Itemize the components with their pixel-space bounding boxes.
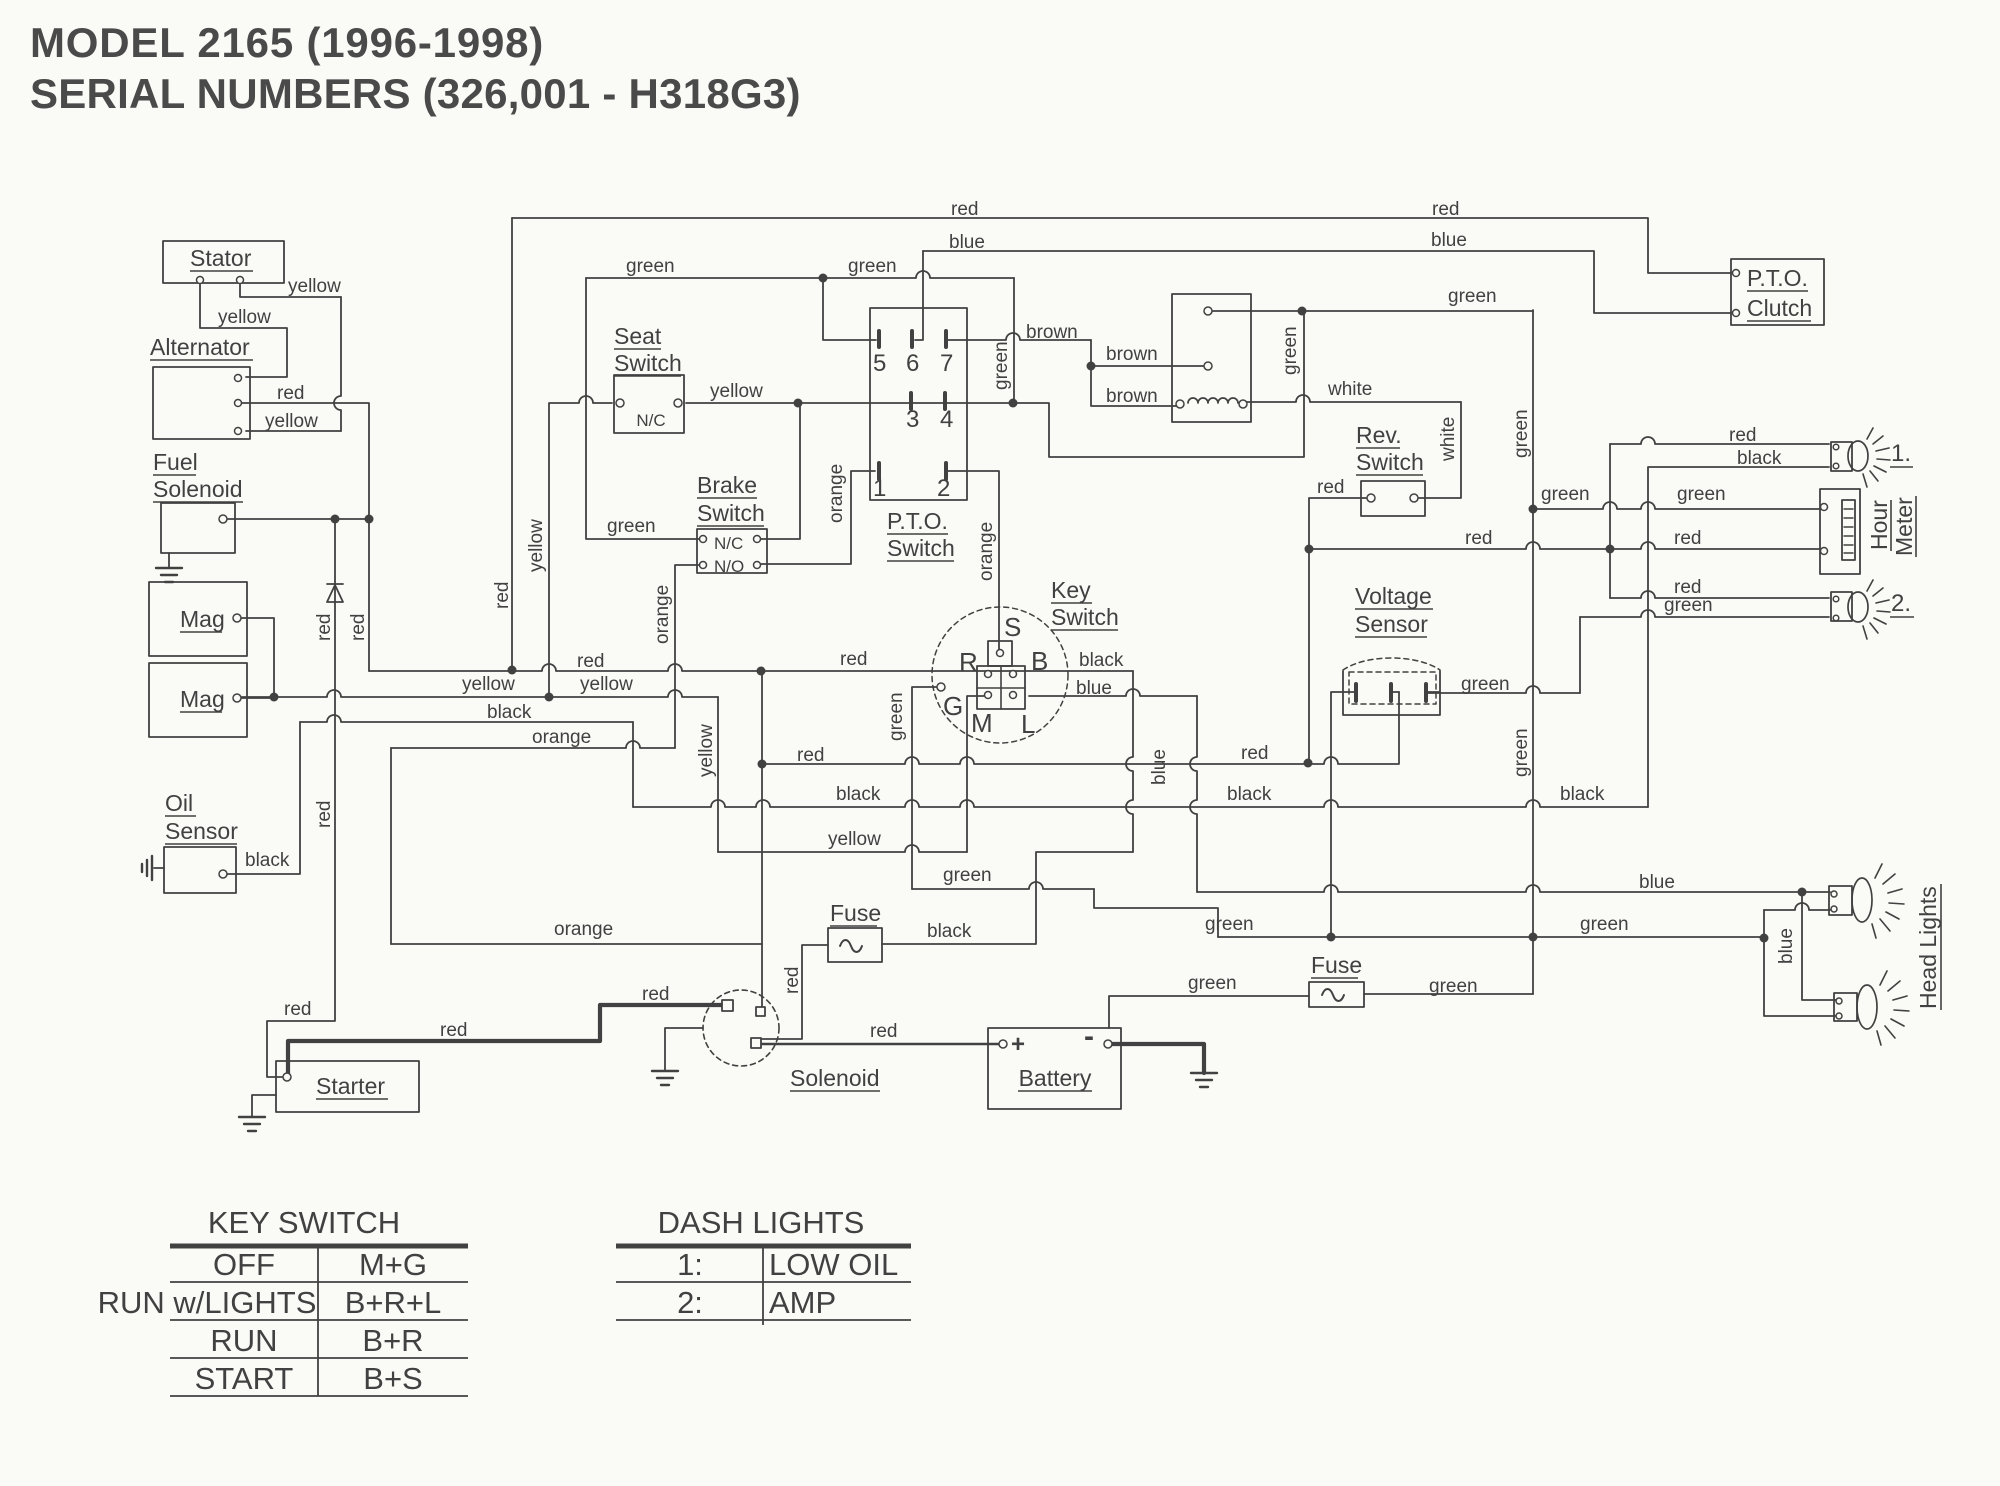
svg-text:AMP: AMP bbox=[769, 1285, 836, 1320]
svg-text:red: red bbox=[1432, 199, 1459, 220]
svg-text:Sensor: Sensor bbox=[1355, 611, 1428, 637]
svg-text:B+R+L: B+R+L bbox=[345, 1285, 442, 1320]
svg-text:S: S bbox=[1004, 612, 1021, 642]
svg-text:1: 1 bbox=[873, 475, 886, 502]
svg-text:Rev.: Rev. bbox=[1356, 422, 1402, 448]
svg-text:Switch: Switch bbox=[887, 535, 955, 561]
svg-text:red: red bbox=[840, 649, 867, 670]
svg-text:green: green bbox=[1448, 286, 1497, 307]
svg-text:red: red bbox=[642, 984, 669, 1005]
svg-text:green: green bbox=[1188, 973, 1237, 994]
svg-text:green: green bbox=[1677, 484, 1726, 505]
svg-text:red: red bbox=[492, 582, 513, 609]
svg-text:red: red bbox=[870, 1021, 897, 1042]
svg-text:Fuel: Fuel bbox=[153, 449, 198, 475]
svg-text:green: green bbox=[1580, 914, 1629, 935]
svg-text:green: green bbox=[626, 256, 675, 277]
svg-text:2: 2 bbox=[937, 475, 950, 502]
svg-text:brown: brown bbox=[1026, 322, 1078, 343]
svg-text:red: red bbox=[440, 1020, 467, 1041]
svg-text:black: black bbox=[1227, 784, 1272, 805]
svg-text:DASH LIGHTS: DASH LIGHTS bbox=[658, 1205, 865, 1240]
svg-text:1.: 1. bbox=[1891, 440, 1911, 467]
svg-text:orange: orange bbox=[652, 585, 673, 644]
svg-text:-: - bbox=[1084, 1020, 1094, 1053]
svg-text:5: 5 bbox=[873, 350, 886, 377]
svg-text:green: green bbox=[1429, 976, 1478, 997]
svg-text:2.: 2. bbox=[1891, 590, 1911, 617]
svg-text:4: 4 bbox=[940, 406, 953, 433]
svg-text:M: M bbox=[971, 708, 993, 738]
svg-text:yellow: yellow bbox=[696, 724, 717, 777]
svg-text:green: green bbox=[1205, 914, 1254, 935]
svg-text:orange: orange bbox=[554, 919, 613, 940]
svg-text:orange: orange bbox=[826, 464, 847, 523]
svg-text:red: red bbox=[348, 614, 369, 641]
svg-text:P.T.O.: P.T.O. bbox=[887, 508, 948, 534]
svg-text:Stator: Stator bbox=[190, 245, 252, 271]
svg-text:N/O: N/O bbox=[714, 557, 744, 576]
svg-text:black: black bbox=[245, 850, 290, 871]
svg-text:orange: orange bbox=[532, 727, 591, 748]
svg-text:red: red bbox=[797, 745, 824, 766]
svg-text:red: red bbox=[577, 651, 604, 672]
svg-text:Meter: Meter bbox=[1891, 497, 1917, 556]
svg-text:white: white bbox=[1438, 417, 1459, 462]
svg-text:blue: blue bbox=[1149, 749, 1170, 785]
svg-text:yellow: yellow bbox=[462, 674, 515, 695]
svg-text:green: green bbox=[1511, 409, 1532, 458]
svg-text:G: G bbox=[943, 691, 963, 721]
svg-text:black: black bbox=[1079, 650, 1124, 671]
svg-text:yellow: yellow bbox=[580, 674, 633, 695]
svg-text:Battery: Battery bbox=[1019, 1065, 1092, 1091]
svg-text:R: R bbox=[959, 647, 978, 677]
svg-text:red: red bbox=[1674, 528, 1701, 549]
svg-text:Solenoid: Solenoid bbox=[790, 1065, 880, 1091]
svg-text:N/C: N/C bbox=[636, 411, 665, 430]
svg-text:N/C: N/C bbox=[714, 534, 743, 553]
svg-text:KEY SWITCH: KEY SWITCH bbox=[208, 1205, 400, 1240]
svg-text:Seat: Seat bbox=[614, 323, 662, 349]
svg-text:Starter: Starter bbox=[316, 1073, 385, 1099]
svg-text:Fuse: Fuse bbox=[830, 900, 881, 926]
svg-text:brown: brown bbox=[1106, 344, 1158, 365]
svg-text:Switch: Switch bbox=[697, 500, 765, 526]
svg-text:green: green bbox=[991, 341, 1012, 390]
svg-text:Switch: Switch bbox=[614, 350, 682, 376]
svg-text:Solenoid: Solenoid bbox=[153, 476, 243, 502]
svg-text:2:: 2: bbox=[677, 1285, 703, 1320]
svg-text:red: red bbox=[1729, 425, 1756, 446]
svg-text:red: red bbox=[284, 999, 311, 1020]
svg-text:Voltage: Voltage bbox=[1355, 583, 1432, 609]
svg-text:green: green bbox=[848, 256, 897, 277]
svg-text:black: black bbox=[836, 784, 881, 805]
svg-text:blue: blue bbox=[949, 232, 985, 253]
svg-text:yellow: yellow bbox=[828, 829, 881, 850]
svg-text:3: 3 bbox=[906, 406, 919, 433]
svg-text:white: white bbox=[1327, 379, 1372, 400]
svg-text:1:: 1: bbox=[677, 1247, 703, 1282]
svg-text:Alternator: Alternator bbox=[150, 334, 250, 360]
svg-text:RUN w/LIGHTS: RUN w/LIGHTS bbox=[98, 1285, 317, 1320]
svg-text:yellow: yellow bbox=[710, 381, 763, 402]
svg-text:P.T.O.: P.T.O. bbox=[1747, 265, 1808, 291]
svg-text:B+S: B+S bbox=[363, 1361, 422, 1396]
svg-text:yellow: yellow bbox=[265, 411, 318, 432]
svg-text:START: START bbox=[195, 1361, 294, 1396]
svg-text:B: B bbox=[1031, 646, 1048, 676]
svg-text:Fuse: Fuse bbox=[1311, 952, 1362, 978]
svg-text:green: green bbox=[1541, 484, 1590, 505]
svg-text:black: black bbox=[1737, 448, 1782, 469]
svg-text:green: green bbox=[1511, 728, 1532, 777]
svg-text:OFF: OFF bbox=[213, 1247, 275, 1282]
svg-text:6: 6 bbox=[906, 350, 919, 377]
svg-text:green: green bbox=[943, 865, 992, 886]
svg-text:B+R: B+R bbox=[362, 1323, 423, 1358]
svg-text:LOW OIL: LOW OIL bbox=[769, 1247, 898, 1282]
svg-text:Switch: Switch bbox=[1356, 449, 1424, 475]
svg-text:blue: blue bbox=[1776, 928, 1797, 964]
svg-text:orange: orange bbox=[976, 522, 997, 581]
svg-text:7: 7 bbox=[940, 350, 953, 377]
svg-text:+: + bbox=[1011, 1031, 1025, 1058]
svg-text:red: red bbox=[314, 614, 335, 641]
svg-text:black: black bbox=[927, 921, 972, 942]
svg-text:RUN: RUN bbox=[210, 1323, 277, 1358]
svg-text:blue: blue bbox=[1639, 872, 1675, 893]
svg-text:Hour: Hour bbox=[1866, 500, 1892, 550]
svg-text:yellow: yellow bbox=[218, 307, 271, 328]
svg-text:Brake: Brake bbox=[697, 472, 757, 498]
svg-text:Head Lights: Head Lights bbox=[1915, 886, 1941, 1009]
svg-text:L: L bbox=[1021, 709, 1035, 739]
svg-text:red: red bbox=[277, 383, 304, 404]
svg-text:yellow: yellow bbox=[526, 519, 547, 572]
svg-text:MODEL 2165 (1996-1998): MODEL 2165 (1996-1998) bbox=[30, 19, 544, 66]
svg-text:M+G: M+G bbox=[359, 1247, 427, 1282]
svg-text:black: black bbox=[1560, 784, 1605, 805]
svg-text:Switch: Switch bbox=[1051, 604, 1119, 630]
svg-text:Mag: Mag bbox=[180, 686, 225, 712]
svg-text:blue: blue bbox=[1431, 230, 1467, 251]
svg-text:red: red bbox=[1317, 477, 1344, 498]
svg-text:brown: brown bbox=[1106, 386, 1158, 407]
svg-text:blue: blue bbox=[1076, 678, 1112, 699]
svg-text:Mag: Mag bbox=[180, 606, 225, 632]
svg-text:green: green bbox=[886, 692, 907, 741]
svg-text:Clutch: Clutch bbox=[1747, 295, 1812, 321]
svg-text:red: red bbox=[1465, 528, 1492, 549]
svg-text:Oil: Oil bbox=[165, 790, 193, 816]
svg-text:Key: Key bbox=[1051, 577, 1091, 603]
svg-text:green: green bbox=[1461, 674, 1510, 695]
svg-text:red: red bbox=[1241, 743, 1268, 764]
svg-text:red: red bbox=[314, 801, 335, 828]
svg-text:red: red bbox=[782, 967, 803, 994]
svg-text:black: black bbox=[487, 702, 532, 723]
svg-text:red: red bbox=[951, 199, 978, 220]
svg-text:green: green bbox=[607, 516, 656, 537]
svg-text:Sensor: Sensor bbox=[165, 818, 238, 844]
svg-text:yellow: yellow bbox=[288, 276, 341, 297]
svg-text:green: green bbox=[1280, 326, 1301, 375]
svg-text:SERIAL NUMBERS (326,001 - H318: SERIAL NUMBERS (326,001 - H318G3) bbox=[30, 70, 801, 117]
svg-text:green: green bbox=[1664, 595, 1713, 616]
